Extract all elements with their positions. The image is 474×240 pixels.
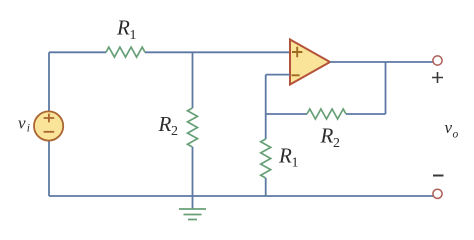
- terminal top: [433, 56, 442, 65]
- wire bottom horizontal: [49, 195, 433, 197]
- svg-text:1: 1: [292, 156, 299, 171]
- resistor R1 (top horizontal): [106, 47, 145, 57]
- ground stem: [192, 196, 194, 209]
- wire middle vertical upper (node to R2): [192, 52, 194, 108]
- resistor R1 (vertical): [261, 139, 271, 178]
- plus sign in source: [44, 114, 55, 123]
- wire left vertical lower: [48, 140, 50, 196]
- svg-text:R: R: [158, 112, 172, 136]
- minus sign in op-amp: [292, 74, 300, 76]
- wire top horizontal left lead: [49, 51, 106, 53]
- wire output horizontal: [330, 61, 433, 63]
- wire top horizontal right lead to op-amp: [145, 51, 290, 53]
- svg-text:v: v: [18, 114, 26, 133]
- voltage source vi: [34, 111, 63, 140]
- wire feedback horizontal left: [266, 113, 307, 115]
- wire inverting vertical lower: [265, 178, 267, 196]
- wire inverting input: [266, 74, 290, 76]
- svg-text:v: v: [445, 118, 453, 137]
- minus label (output): [433, 175, 444, 177]
- svg-text:R: R: [116, 16, 130, 40]
- resistor R2 (feedback): [307, 109, 346, 119]
- wire middle vertical lower: [192, 147, 194, 196]
- minus sign in source: [44, 131, 55, 133]
- svg-text:1: 1: [130, 28, 137, 43]
- svg-text:o: o: [453, 129, 459, 141]
- wire feedback horizontal right: [346, 113, 386, 115]
- svg-text:R: R: [278, 143, 292, 167]
- resistor R2 (vertical): [188, 108, 198, 147]
- wire left vertical upper: [48, 52, 50, 112]
- svg-text:i: i: [27, 123, 30, 135]
- svg-text:2: 2: [171, 124, 178, 139]
- wire feedback vertical to output: [385, 62, 387, 114]
- op-amp U1: [290, 40, 330, 85]
- plus label (output): [432, 72, 443, 83]
- plus sign in op-amp: [292, 47, 302, 57]
- svg-text:R: R: [320, 124, 334, 148]
- svg-text:2: 2: [333, 136, 340, 151]
- ground: [179, 209, 206, 220]
- wire inverting vertical upper: [265, 75, 267, 139]
- terminal bottom: [433, 189, 442, 198]
